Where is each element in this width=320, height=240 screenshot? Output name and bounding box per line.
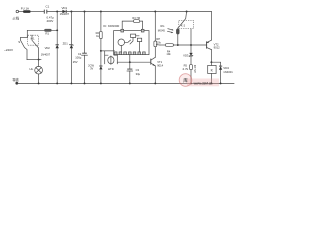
- svg-text:www.dzkf.cn: www.dzkf.cn: [194, 81, 213, 85]
- svg-text:2.7k: 2.7k: [183, 67, 189, 71]
